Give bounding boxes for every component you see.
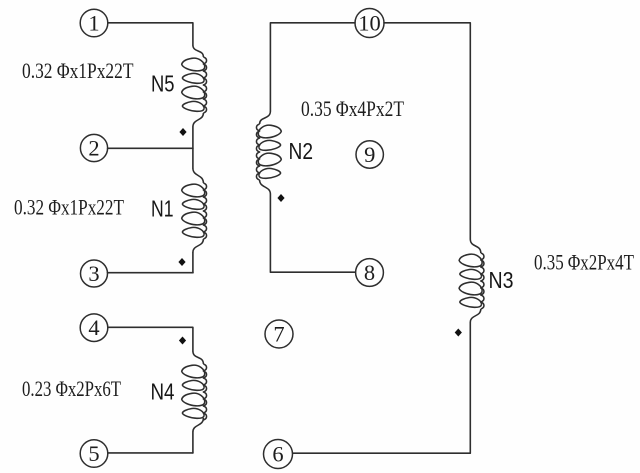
svg-text:N4: N4 [151,379,175,405]
terminal 5 [80,440,108,468]
svg-text:0.32 Φx1Px22T: 0.32 Φx1Px22T [14,195,124,220]
svg-text:2: 2 [88,136,99,161]
wire 1 to bus [108,23,193,45]
wire bus to 3 [192,253,194,273]
wire bus 2-segment [192,127,194,168]
winding N4 [182,351,207,432]
svg-text:6: 6 [272,442,283,467]
terminal 8 [356,259,384,287]
phase dot N1 [178,258,185,266]
winding N1 [182,168,207,253]
terminal 2 [80,134,107,161]
phase dot N5 [179,128,186,136]
svg-text:N5: N5 [151,71,175,97]
svg-text:0.35 Φx2Px4T: 0.35 Φx2Px4T [534,250,634,275]
wire bus to 5 [192,432,194,453]
wire 10 left to N2 bus [270,23,355,111]
svg-text:N1: N1 [151,196,174,222]
phase dot N2 [277,194,284,202]
terminal 7 [265,320,293,348]
svg-text:3: 3 [88,261,99,286]
terminal 1 [80,9,108,37]
terminal 3 [81,260,108,287]
terminal 9 [356,141,383,168]
winding N3 [459,239,484,323]
terminal 10 [355,9,384,38]
wire 3 [108,272,193,274]
svg-text:7: 7 [273,322,284,347]
wire 2 to bus [108,147,193,149]
svg-text:5: 5 [88,441,99,466]
svg-text:1: 1 [88,11,99,36]
phase dot N3 [455,329,462,337]
svg-text:0.23 Φx2Px6T: 0.23 Φx2Px6T [22,376,121,401]
wire N2 bus to 8 [270,194,355,272]
svg-text:8: 8 [364,260,375,285]
svg-text:10: 10 [358,11,381,36]
svg-text:4: 4 [88,315,99,340]
winding N5 [182,45,207,127]
svg-text:0.32 Φx1Px22T: 0.32 Φx1Px22T [22,58,134,83]
terminal 6 [264,440,293,469]
terminal 4 [80,314,108,342]
svg-text:0.35 Φx4Px2T: 0.35 Φx4Px2T [301,96,404,121]
wire 4 to bus [108,327,193,351]
svg-text:N3: N3 [489,267,514,293]
wire 10 right to N3 bus [384,23,470,239]
wire N3 bus to 6 [293,323,471,454]
phase dot N4 [179,337,186,345]
winding N2 [256,111,281,194]
wire 5 [108,452,193,454]
svg-text:9: 9 [364,142,375,167]
svg-text:N2: N2 [289,138,314,164]
